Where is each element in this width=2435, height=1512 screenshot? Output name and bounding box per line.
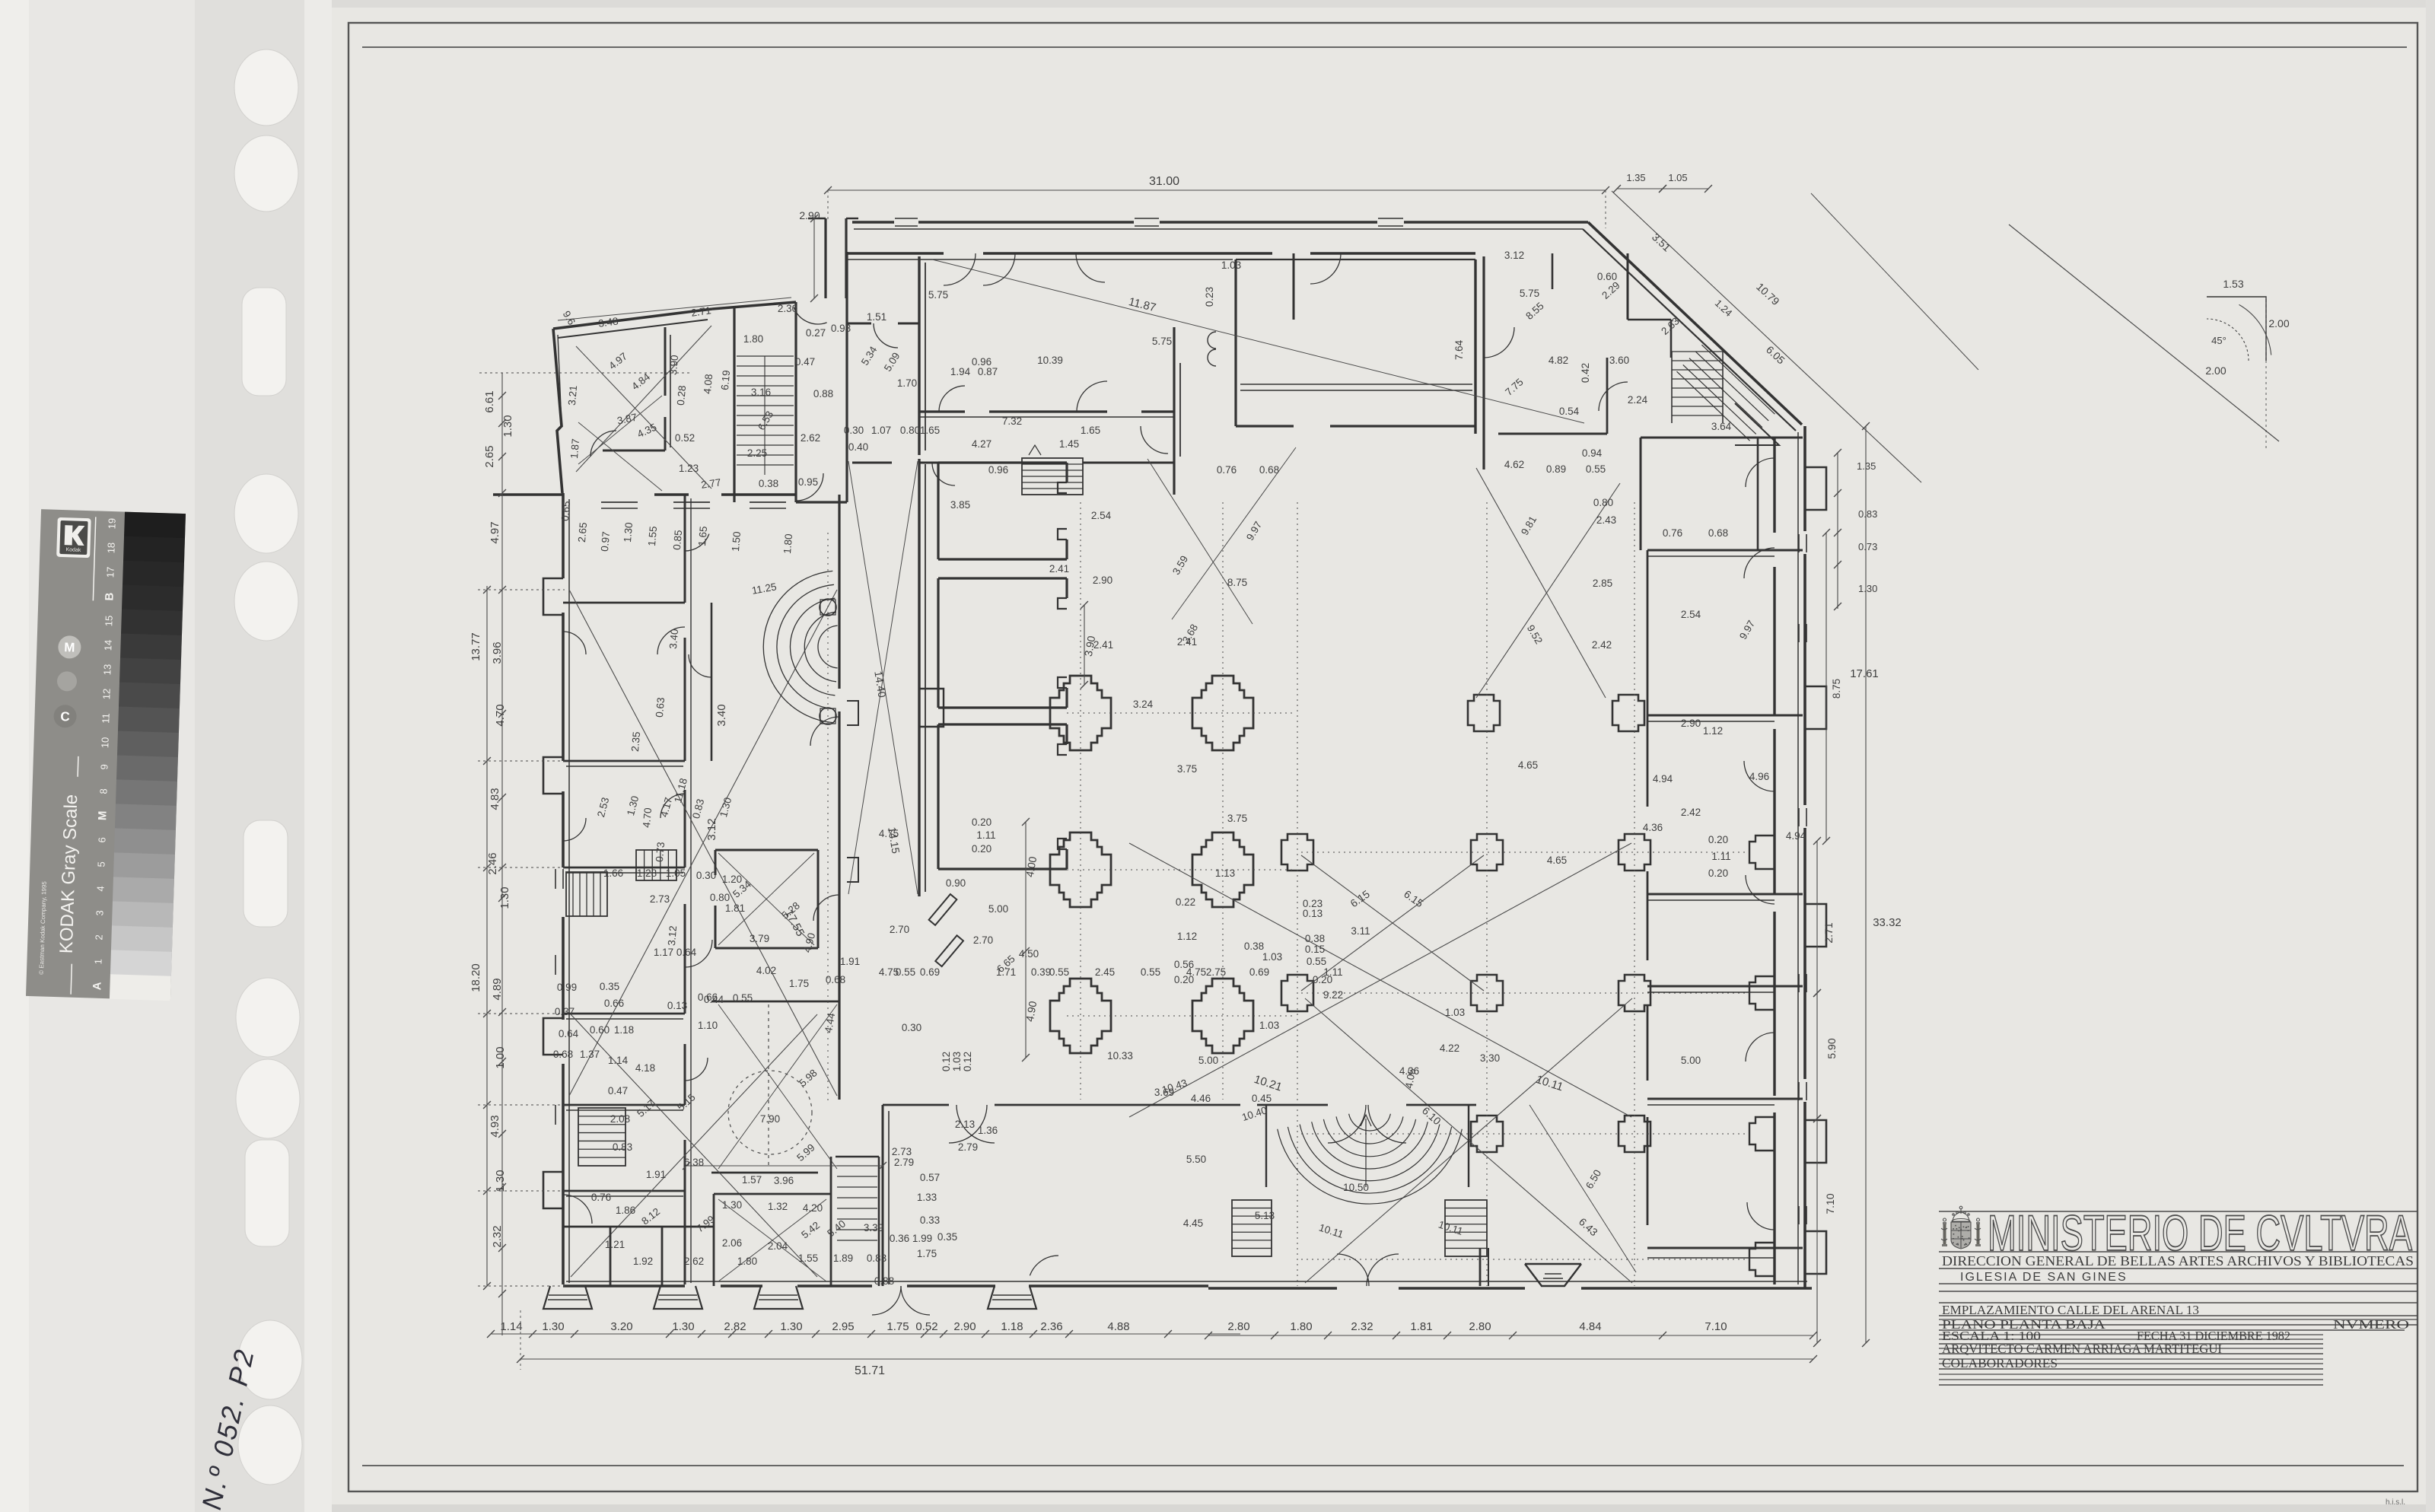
svg-text:3.12: 3.12 xyxy=(705,818,718,840)
svg-text:0.76: 0.76 xyxy=(1663,527,1682,539)
svg-text:1.45: 1.45 xyxy=(1059,438,1079,450)
svg-text:1.14: 1.14 xyxy=(500,1320,522,1333)
svg-text:3.75: 3.75 xyxy=(1227,813,1247,824)
svg-text:1: 1 xyxy=(92,959,103,965)
svg-text:h.i.s.l.: h.i.s.l. xyxy=(2386,1498,2405,1507)
svg-text:2.79: 2.79 xyxy=(894,1157,914,1168)
right wing inner face with half pillars xyxy=(1647,550,1649,807)
svg-text:1.10: 1.10 xyxy=(698,1020,718,1031)
svg-text:2.13: 2.13 xyxy=(955,1119,975,1130)
svg-text:2.95: 2.95 xyxy=(832,1320,854,1333)
svg-text:2.36: 2.36 xyxy=(1040,1320,1062,1333)
svg-text:0.60: 0.60 xyxy=(590,1024,610,1036)
axis dashed lines xyxy=(1067,712,1294,714)
big nave piers xyxy=(1050,676,1111,750)
chamfered corner outer wall (double) xyxy=(1588,222,1802,425)
svg-text:0.20: 0.20 xyxy=(972,843,992,855)
room walls below corridor right part xyxy=(1482,256,1485,470)
svg-text:0.63: 0.63 xyxy=(654,697,667,718)
svg-text:1.20: 1.20 xyxy=(722,874,742,885)
svg-text:0.89: 0.89 xyxy=(1546,463,1566,475)
inner bottom rule xyxy=(362,1465,2404,1466)
svg-text:2.85: 2.85 xyxy=(1593,578,1612,589)
svg-text:8.75: 8.75 xyxy=(1227,577,1247,588)
svg-text:4.65: 4.65 xyxy=(1518,759,1538,771)
stair block left wing mid xyxy=(636,850,676,880)
svg-text:1.51: 1.51 xyxy=(867,311,886,323)
svg-text:4.94: 4.94 xyxy=(1653,773,1673,785)
svg-text:5.99: 5.99 xyxy=(794,1141,817,1163)
svg-text:0.38: 0.38 xyxy=(759,478,778,489)
top entrance passage walls xyxy=(824,218,826,298)
svg-text:2.71: 2.71 xyxy=(690,304,711,319)
svg-text:0.30: 0.30 xyxy=(902,1022,921,1033)
svg-text:M: M xyxy=(64,640,75,654)
svg-text:4.88: 4.88 xyxy=(1107,1320,1129,1333)
south wall right section xyxy=(1208,1287,1337,1290)
svg-text:1.18: 1.18 xyxy=(614,1024,634,1036)
svg-text:11.25: 11.25 xyxy=(751,581,778,596)
svg-text:0.76: 0.76 xyxy=(591,1192,611,1203)
right wing room dividers xyxy=(1641,437,1803,439)
svg-text:5.75: 5.75 xyxy=(1152,336,1172,347)
tilted block left wall xyxy=(553,329,562,493)
inner top rule xyxy=(362,46,2407,48)
svg-text:51.71: 51.71 xyxy=(855,1364,885,1377)
svg-text:5.09: 5.09 xyxy=(882,350,902,373)
svg-text:5: 5 xyxy=(95,861,107,867)
svg-text:15: 15 xyxy=(103,616,114,627)
vertical dotted axis through fan xyxy=(827,533,829,1103)
svg-text:0.13: 0.13 xyxy=(667,1000,687,1011)
svg-text:1.03: 1.03 xyxy=(1259,1020,1279,1031)
svg-text:3.40: 3.40 xyxy=(715,704,728,726)
svg-text:0.40: 0.40 xyxy=(848,441,868,453)
overall bottom dimension 51.71 xyxy=(520,1358,1813,1360)
svg-text:0.55: 0.55 xyxy=(733,992,753,1004)
left wing inner wall xyxy=(684,495,686,603)
thin companion lines (double walls) xyxy=(854,228,1583,230)
svg-text:0.96: 0.96 xyxy=(972,356,992,368)
svg-text:1.30: 1.30 xyxy=(498,887,511,909)
svg-text:0.22: 0.22 xyxy=(1176,896,1195,908)
svg-text:1.81: 1.81 xyxy=(725,902,745,914)
svg-text:2.43: 2.43 xyxy=(1596,514,1616,526)
svg-text:1.99: 1.99 xyxy=(912,1233,932,1244)
svg-text:0.96: 0.96 xyxy=(988,464,1008,476)
svg-text:2.54: 2.54 xyxy=(1091,510,1112,521)
svg-text:0.35: 0.35 xyxy=(937,1231,957,1243)
svg-text:10.33: 10.33 xyxy=(1107,1050,1133,1062)
svg-text:0.20: 0.20 xyxy=(972,816,992,828)
svg-text:B: B xyxy=(103,592,116,601)
svg-text:4.27: 4.27 xyxy=(972,438,992,450)
svg-text:3.96: 3.96 xyxy=(774,1175,794,1186)
svg-text:1.65: 1.65 xyxy=(1081,425,1100,436)
svg-text:0.69: 0.69 xyxy=(1249,966,1269,978)
svg-text:4.05: 4.05 xyxy=(1403,1068,1418,1089)
concentric arc steps xyxy=(818,625,838,668)
svg-text:0.83: 0.83 xyxy=(690,797,706,820)
corridor X diagonals xyxy=(848,461,918,894)
aisle vertical dim lines xyxy=(1084,605,1085,685)
svg-text:1.30: 1.30 xyxy=(625,794,641,816)
svg-text:DIRECCION GENERAL DE BELLAS AR: DIRECCION GENERAL DE BELLAS ARTES ARCHIV… xyxy=(1942,1253,2414,1268)
svg-text:0.80: 0.80 xyxy=(900,425,920,436)
svg-text:0.30: 0.30 xyxy=(696,870,716,881)
coat of arms of Spain xyxy=(1941,1206,1981,1249)
svg-text:4.82: 4.82 xyxy=(1549,355,1568,366)
svg-text:3.51: 3.51 xyxy=(1650,231,1673,253)
svg-text:33.32: 33.32 xyxy=(1873,916,1902,929)
building plan linework xyxy=(469,172,2290,1377)
svg-text:2.00: 2.00 xyxy=(2205,364,2226,377)
portal walls xyxy=(1257,1104,1328,1106)
svg-text:10.39: 10.39 xyxy=(1037,355,1063,366)
svg-text:0.55: 0.55 xyxy=(896,966,915,978)
svg-text:3.59: 3.59 xyxy=(1170,554,1190,577)
svg-text:1.30: 1.30 xyxy=(1858,583,1877,594)
svg-text:0.55: 0.55 xyxy=(1141,966,1160,978)
svg-text:2.62: 2.62 xyxy=(684,1256,704,1267)
svg-text:0.28: 0.28 xyxy=(675,385,688,406)
svg-text:2.80: 2.80 xyxy=(1227,1320,1249,1333)
svg-text:2.06: 2.06 xyxy=(722,1237,742,1249)
lower-left big room X xyxy=(571,1014,817,1277)
svg-text:0.55: 0.55 xyxy=(1049,966,1069,978)
SE rooms near portal xyxy=(1479,1248,1482,1286)
corridor double wall left nave xyxy=(918,256,920,455)
svg-text:1.91: 1.91 xyxy=(646,1169,666,1180)
svg-text:0.12: 0.12 xyxy=(962,1052,973,1071)
bottom room B xyxy=(714,1193,831,1195)
svg-text:13.77: 13.77 xyxy=(469,632,482,661)
svg-text:0.45: 0.45 xyxy=(1252,1093,1272,1104)
svg-text:1.30: 1.30 xyxy=(722,1199,742,1211)
svg-text:8.55: 8.55 xyxy=(1523,300,1546,322)
svg-text:2.80: 2.80 xyxy=(1469,1320,1491,1333)
slanted dim line above tilted block xyxy=(558,298,791,320)
svg-text:1.23: 1.23 xyxy=(679,463,699,474)
chapel rooms left nave xyxy=(937,463,939,559)
svg-text:3.24: 3.24 xyxy=(1133,699,1154,710)
svg-text:3.90: 3.90 xyxy=(667,355,680,375)
svg-text:2.77: 2.77 xyxy=(700,476,721,491)
svg-text:A: A xyxy=(91,982,103,991)
chapel row left of portal xyxy=(883,1104,949,1106)
svg-text:2.41: 2.41 xyxy=(1177,636,1197,648)
svg-text:1.71: 1.71 xyxy=(996,966,1016,978)
chamfer diagonal dimension chain xyxy=(1612,191,1921,482)
svg-text:1.80: 1.80 xyxy=(743,333,763,345)
svg-text:7.10: 7.10 xyxy=(1824,1193,1836,1214)
small courtyard pillars right xyxy=(1468,695,1500,731)
svg-text:4.62: 4.62 xyxy=(1504,459,1524,470)
svg-text:11: 11 xyxy=(100,713,111,724)
svg-text:4.83: 4.83 xyxy=(489,788,501,810)
svg-text:1.33: 1.33 xyxy=(917,1192,937,1203)
svg-text:MINISTERIO DE CVLTVRA: MINISTERIO DE CVLTVRA xyxy=(1988,1205,2412,1261)
nave diagonals xyxy=(1129,843,1631,1117)
svg-text:10.43: 10.43 xyxy=(1160,1077,1189,1096)
svg-text:5.00: 5.00 xyxy=(1198,1055,1218,1066)
chamfer interior walls xyxy=(1627,253,1629,320)
svg-text:9.97: 9.97 xyxy=(1737,619,1757,641)
svg-text:0.38: 0.38 xyxy=(1305,933,1325,944)
svg-text:7.75: 7.75 xyxy=(1503,376,1526,398)
svg-text:0.88: 0.88 xyxy=(874,1275,894,1287)
svg-text:0.55: 0.55 xyxy=(1586,463,1606,475)
svg-text:2.90: 2.90 xyxy=(1681,718,1701,729)
tilted block top wall xyxy=(553,309,712,329)
room 3.79 xyxy=(715,849,818,851)
svg-text:8: 8 xyxy=(97,788,109,794)
svg-text:6.53: 6.53 xyxy=(756,409,775,432)
svg-text:7.90: 7.90 xyxy=(760,1113,780,1125)
svg-text:1.21: 1.21 xyxy=(605,1239,625,1250)
corner detail top right xyxy=(2009,224,2279,441)
svg-text:2.73: 2.73 xyxy=(892,1146,912,1157)
svg-text:M: M xyxy=(96,810,109,820)
svg-text:0.90: 0.90 xyxy=(946,877,966,889)
svg-text:10: 10 xyxy=(99,737,110,748)
svg-text:4.65: 4.65 xyxy=(1547,855,1567,866)
right wing door arcs extra xyxy=(1746,458,1775,487)
svg-text:2.42: 2.42 xyxy=(1681,807,1701,818)
svg-text:6.61: 6.61 xyxy=(483,390,496,412)
svg-text:1.80: 1.80 xyxy=(1290,1320,1312,1333)
svg-text:0.30: 0.30 xyxy=(844,425,864,436)
svg-text:4: 4 xyxy=(94,886,106,892)
upper rooms south wall with openings xyxy=(852,462,892,464)
svg-text:2.90: 2.90 xyxy=(1093,575,1112,586)
svg-text:Kodak: Kodak xyxy=(65,547,81,553)
svg-text:0.64: 0.64 xyxy=(676,947,697,958)
west outer wall xyxy=(562,493,565,578)
left secondary dim line xyxy=(486,586,488,1286)
svg-text:2.45: 2.45 xyxy=(1095,966,1115,978)
svg-text:7.64: 7.64 xyxy=(1453,339,1465,360)
grayscale step patches xyxy=(124,512,186,539)
svg-text:1.80: 1.80 xyxy=(737,1256,757,1267)
svg-text:5.40: 5.40 xyxy=(825,1218,848,1239)
svg-text:2.65: 2.65 xyxy=(576,522,589,543)
svg-text:4.90: 4.90 xyxy=(1023,1000,1039,1023)
svg-text:6: 6 xyxy=(96,837,107,843)
svg-text:1.36: 1.36 xyxy=(978,1125,998,1136)
svg-text:0.27: 0.27 xyxy=(806,327,826,339)
svg-text:2.65: 2.65 xyxy=(483,445,496,467)
svg-text:5.00: 5.00 xyxy=(1681,1055,1701,1066)
svg-text:13: 13 xyxy=(101,664,113,676)
svg-text:6.15: 6.15 xyxy=(1348,887,1372,909)
svg-text:2.90: 2.90 xyxy=(953,1320,976,1333)
svg-text:1.35: 1.35 xyxy=(1626,172,1645,183)
svg-text:1.80: 1.80 xyxy=(781,533,794,554)
svg-text:1.37: 1.37 xyxy=(580,1049,600,1060)
east outer wall xyxy=(1803,426,1806,531)
svg-text:0.36: 0.36 xyxy=(890,1233,909,1244)
svg-text:14.40: 14.40 xyxy=(872,670,888,699)
svg-text:3.64: 3.64 xyxy=(1711,421,1732,432)
svg-text:4.08: 4.08 xyxy=(702,374,715,394)
svg-text:5.75: 5.75 xyxy=(928,289,948,301)
svg-text:2.00: 2.00 xyxy=(2268,317,2289,329)
svg-text:0.15: 0.15 xyxy=(1305,944,1325,955)
svg-text:2.41: 2.41 xyxy=(1049,563,1069,575)
svg-text:0.95: 0.95 xyxy=(798,476,818,488)
patio cross walls xyxy=(711,1001,839,1003)
svg-text:0.54: 0.54 xyxy=(1559,406,1580,417)
windows in north wall xyxy=(895,218,918,219)
svg-text:1.92: 1.92 xyxy=(633,1256,653,1267)
svg-text:0.76: 0.76 xyxy=(1217,464,1237,476)
north corridor outer wall xyxy=(852,221,894,224)
svg-text:1.30: 1.30 xyxy=(780,1320,802,1333)
hall south wall y541 xyxy=(919,410,965,412)
svg-text:4.97: 4.97 xyxy=(606,350,629,371)
svg-text:1.28: 1.28 xyxy=(637,867,657,879)
svg-text:0.85: 0.85 xyxy=(671,530,684,550)
svg-text:11.87: 11.87 xyxy=(1127,295,1157,314)
svg-text:0.99: 0.99 xyxy=(557,982,577,993)
svg-text:0.38: 0.38 xyxy=(1244,941,1264,952)
svg-text:4.36: 4.36 xyxy=(1643,822,1663,833)
svg-text:31.00: 31.00 xyxy=(1149,175,1179,188)
svg-text:14: 14 xyxy=(102,640,113,651)
right wing chapel front wall xyxy=(1773,438,1775,533)
svg-text:1.00: 1.00 xyxy=(494,1046,507,1068)
svg-text:0.52: 0.52 xyxy=(675,432,695,444)
courtyard diagonals xyxy=(569,590,837,1096)
svg-text:2.62: 2.62 xyxy=(801,432,820,444)
svg-text:1.03: 1.03 xyxy=(951,1052,963,1071)
south facade window bays xyxy=(543,1286,592,1309)
extra window marks east wall xyxy=(1798,624,1800,642)
svg-text:6.10: 6.10 xyxy=(1420,1104,1443,1127)
svg-text:0.35: 0.35 xyxy=(600,981,619,992)
X room wall left of hall xyxy=(847,323,871,325)
svg-text:11.18: 11.18 xyxy=(672,777,689,804)
svg-text:2.41: 2.41 xyxy=(1093,639,1113,651)
svg-text:9.81: 9.81 xyxy=(1519,514,1539,537)
svg-text:0.37: 0.37 xyxy=(555,1006,575,1017)
svg-text:COLABORADORES: COLABORADORES xyxy=(1942,1356,2058,1370)
svg-text:0.66: 0.66 xyxy=(698,992,718,1003)
title block rules xyxy=(1939,1211,2417,1212)
svg-text:4.44: 4.44 xyxy=(823,1011,837,1033)
svg-text:4.89: 4.89 xyxy=(491,978,504,1000)
left dimension chain xyxy=(501,373,503,1335)
svg-text:1.94: 1.94 xyxy=(950,366,971,377)
svg-text:4.75: 4.75 xyxy=(879,828,899,839)
svg-text:1.89: 1.89 xyxy=(833,1253,853,1264)
small stair left wing xyxy=(566,872,607,916)
svg-text:4.45: 4.45 xyxy=(1183,1218,1203,1229)
plastic sleeve edge band xyxy=(195,0,332,1512)
svg-text:2.24: 2.24 xyxy=(1628,394,1648,406)
svg-text:1.30: 1.30 xyxy=(501,415,514,437)
svg-text:2.53: 2.53 xyxy=(595,796,611,818)
6.50 diagonal SE xyxy=(1529,1105,1636,1272)
svg-text:0.68: 0.68 xyxy=(553,1049,573,1060)
svg-text:5.42: 5.42 xyxy=(799,1219,822,1240)
svg-text:1.91: 1.91 xyxy=(840,956,860,967)
west wall pilasters xyxy=(543,578,563,615)
svg-text:17.61: 17.61 xyxy=(1850,667,1879,680)
svg-text:3.48: 3.48 xyxy=(597,315,619,329)
upper rooms dividing walls xyxy=(1173,327,1175,495)
svg-text:3.21: 3.21 xyxy=(566,385,579,406)
courtyard boundary walls xyxy=(711,603,713,761)
svg-text:1.87: 1.87 xyxy=(568,438,581,459)
svg-text:4.35: 4.35 xyxy=(635,422,658,441)
svg-text:1.75: 1.75 xyxy=(886,1320,909,1333)
svg-text:5.00: 5.00 xyxy=(988,903,1008,915)
svg-text:4.02: 4.02 xyxy=(756,965,776,976)
window sill row in upper wing xyxy=(1240,384,1472,385)
vestibule walls xyxy=(845,252,848,502)
svg-text:1.03: 1.03 xyxy=(1221,259,1241,271)
svg-text:0.66: 0.66 xyxy=(604,998,624,1009)
svg-text:0.42: 0.42 xyxy=(1580,363,1591,383)
svg-text:0.68: 0.68 xyxy=(1259,464,1279,476)
svg-text:1.13: 1.13 xyxy=(1215,867,1235,879)
svg-text:4.18: 4.18 xyxy=(635,1062,655,1074)
dashed patio circle xyxy=(728,1071,812,1154)
svg-text:1.03: 1.03 xyxy=(1262,951,1282,963)
svg-text:4.93: 4.93 xyxy=(489,1115,501,1137)
svg-text:4.00: 4.00 xyxy=(1023,855,1039,878)
svg-text:17: 17 xyxy=(104,567,116,578)
svg-text:4.84: 4.84 xyxy=(1579,1320,1601,1333)
svg-text:0.88: 0.88 xyxy=(813,388,833,399)
top overall dimension 31.00 xyxy=(828,189,1606,191)
svg-text:3.87: 3.87 xyxy=(616,412,638,427)
svg-text:1.12: 1.12 xyxy=(1177,931,1197,942)
svg-text:7.32: 7.32 xyxy=(1002,415,1022,427)
svg-text:10.40: 10.40 xyxy=(1240,1104,1268,1123)
svg-text:3: 3 xyxy=(94,910,105,916)
svg-text:1.11: 1.11 xyxy=(976,829,995,841)
svg-text:1.30: 1.30 xyxy=(494,1170,507,1192)
svg-text:1.05: 1.05 xyxy=(1668,172,1687,183)
svg-text:5.34: 5.34 xyxy=(859,344,880,368)
svg-text:3.11: 3.11 xyxy=(1351,925,1370,937)
svg-text:3.96: 3.96 xyxy=(491,641,504,664)
svg-text:IGLESIA DE SAN GINES: IGLESIA DE SAN GINES xyxy=(1960,1271,2128,1284)
svg-text:2.70: 2.70 xyxy=(890,924,909,935)
handwritten archive number xyxy=(196,1345,260,1512)
svg-text:0.80: 0.80 xyxy=(1593,497,1613,508)
svg-text:4.94: 4.94 xyxy=(1786,830,1806,842)
svg-text:0.94: 0.94 xyxy=(1582,447,1603,459)
svg-text:1.12: 1.12 xyxy=(1703,725,1723,737)
svg-text:3.30: 3.30 xyxy=(1480,1052,1500,1064)
svg-text:5.75: 5.75 xyxy=(1520,288,1539,299)
svg-text:3.12: 3.12 xyxy=(666,925,679,946)
svg-text:0.69: 0.69 xyxy=(920,966,940,978)
svg-text:1.07: 1.07 xyxy=(871,425,891,436)
extra door arcs left wing xyxy=(660,794,685,818)
bottom sill band of tilted block xyxy=(601,501,638,503)
C M dots xyxy=(58,635,81,659)
svg-text:1.55: 1.55 xyxy=(646,526,659,546)
svg-text:9: 9 xyxy=(98,764,110,770)
svg-text:1.17: 1.17 xyxy=(654,947,673,958)
svg-text:0.87: 0.87 xyxy=(978,366,998,377)
tilted room X diagonals xyxy=(576,346,711,489)
